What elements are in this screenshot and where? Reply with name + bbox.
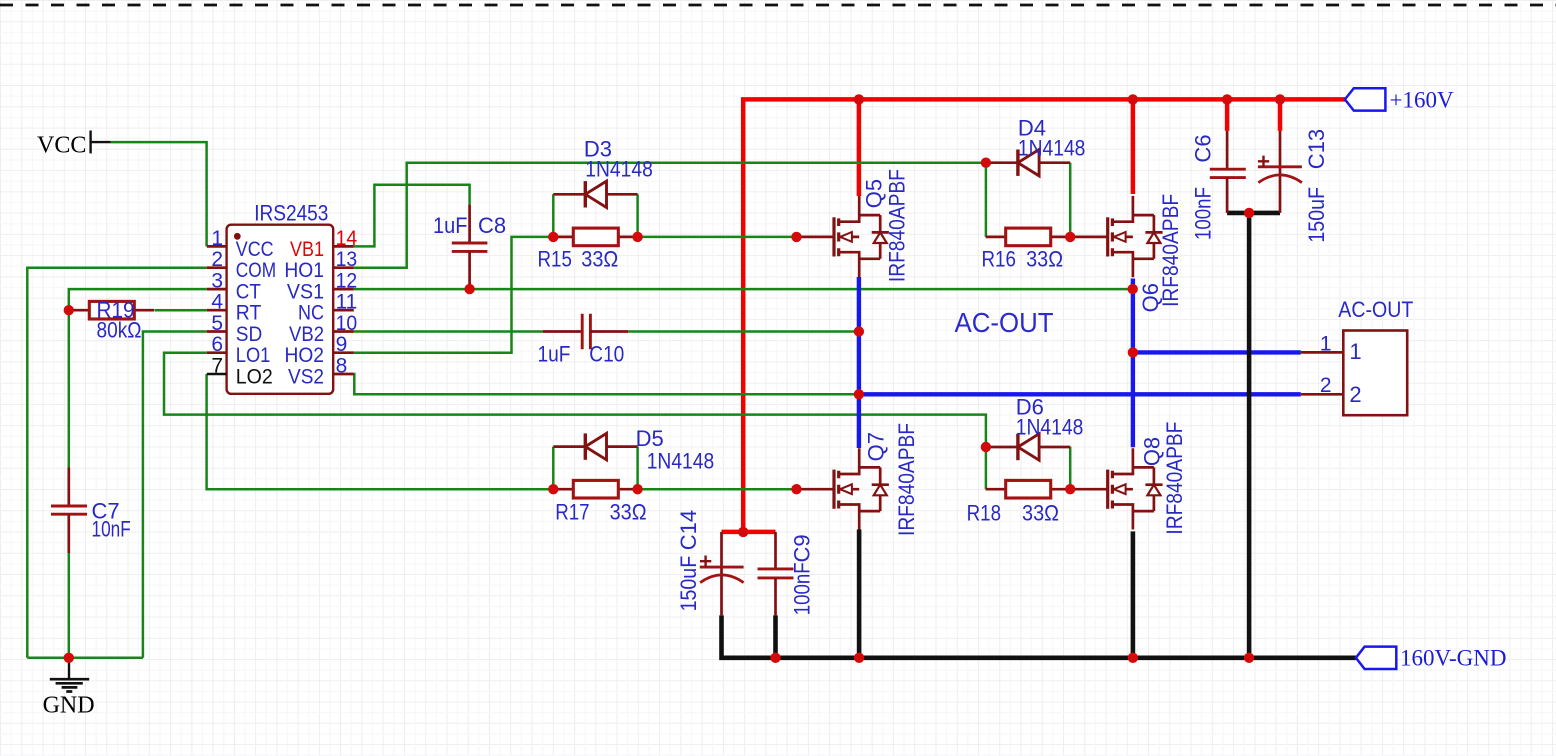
node junction line1 Q6 (1128, 347, 1138, 357)
pin 10 VB2 (289, 312, 357, 346)
wire RT pin4 to R19 (155, 309, 207, 312)
wire HO2 pin9 to R15 left (354, 237, 554, 353)
node junction C6/C13 black bar (1244, 208, 1254, 218)
node junction C8 bottom VS1 (464, 284, 474, 294)
node junction right vertical rail (1244, 653, 1254, 663)
svg-text:C13: C13 (1304, 129, 1329, 169)
svg-text:IRF840APBF: IRF840APBF (885, 169, 910, 282)
svg-text:8: 8 (336, 355, 348, 378)
connector J AC-OUT (1338, 297, 1413, 415)
svg-text:LO2: LO2 (236, 366, 273, 389)
svg-text:160V-GND: 160V-GND (1400, 646, 1507, 671)
capacitor C10 1uF (538, 314, 629, 367)
sheet top dashed border (0, 4, 1556, 7)
svg-text:C8: C8 (478, 213, 506, 238)
wire SD pin5 to GND rail (143, 332, 207, 658)
svg-text:2: 2 (211, 248, 223, 271)
wire +160V C14/C9 bar (722, 530, 776, 535)
svg-text:2: 2 (1349, 382, 1361, 407)
wire D6 right vertical (1069, 447, 1072, 490)
node junction Q8 source rail (1128, 653, 1138, 663)
svg-text:IRS2453: IRS2453 (254, 200, 328, 225)
wire LO2 pin7 to R17 left (207, 374, 554, 489)
wire HO1 pin13 to D4 left (354, 163, 986, 268)
node junction D6 left LO1 (981, 442, 991, 452)
svg-text:1uF: 1uF (538, 342, 571, 367)
svg-text:LO1: LO1 (236, 344, 270, 367)
wire D4 left vertical to R16 (985, 163, 988, 237)
svg-text:1N4148: 1N4148 (1016, 415, 1084, 440)
pin 2 connector (1301, 374, 1362, 407)
svg-text:80kΩ: 80kΩ (97, 317, 142, 342)
wire CT pin3 left (69, 289, 207, 467)
svg-text:3: 3 (211, 270, 223, 293)
node junction bus C13 (1275, 94, 1285, 104)
resistor R19 80k (69, 298, 154, 343)
svg-text:150uF: 150uF (676, 556, 701, 612)
pin 6 LO1 (207, 333, 270, 367)
svg-text:SD: SD (236, 323, 262, 346)
pin 5 SD (207, 312, 262, 346)
svg-text:AC-OUT: AC-OUT (1338, 297, 1413, 322)
svg-text:14: 14 (336, 227, 358, 250)
wire +160V to C6 (1225, 99, 1230, 130)
svg-text:VB2: VB2 (289, 323, 324, 346)
svg-text:1N4148: 1N4148 (647, 449, 715, 474)
svg-text:10: 10 (336, 312, 358, 335)
pin 9 HO2 (285, 333, 354, 367)
op-amp U1 IRS2453 body (227, 200, 334, 393)
node junction C9 rail (770, 653, 780, 663)
svg-text:150uF: 150uF (1304, 187, 1329, 243)
svg-text:NC: NC (298, 302, 324, 325)
wire R17 right to Q7 gate (638, 488, 797, 491)
svg-text:1: 1 (1349, 339, 1361, 364)
svg-text:CT: CT (236, 281, 261, 304)
svg-text:1: 1 (211, 227, 223, 250)
svg-text:100nF: 100nF (790, 562, 815, 615)
svg-text:33Ω: 33Ω (610, 500, 647, 525)
node junction R15 right (632, 232, 642, 242)
svg-text:R16: R16 (982, 246, 1016, 271)
wire +160V to Q5 drain (857, 99, 862, 196)
svg-text:1N4148: 1N4148 (585, 156, 653, 181)
svg-text:4: 4 (211, 291, 223, 314)
svg-text:Q5: Q5 (862, 179, 887, 208)
svg-text:+160V: +160V (1390, 88, 1454, 113)
node junction bus C14/C9 corner (738, 527, 748, 537)
svg-text:HO1: HO1 (284, 259, 324, 282)
svg-text:C10: C10 (589, 342, 624, 367)
wire LO1 pin6 to D6 junction (164, 353, 986, 447)
ground GND symbol (43, 658, 95, 719)
node VCC label (37, 131, 91, 159)
pin 14 VB1 (290, 227, 357, 261)
wire R15 right to Q5 gate (638, 236, 797, 239)
node junction bus C6 (1222, 94, 1232, 104)
svg-text:Q7: Q7 (864, 432, 889, 461)
svg-text:7: 7 (211, 355, 223, 378)
svg-text:10nF: 10nF (92, 517, 131, 542)
pin 8 VS2 (288, 355, 354, 389)
wire VS1 pin12 to Q6 source (354, 288, 1133, 291)
wire D5 right vertical (636, 447, 639, 490)
pin 11 NC (298, 291, 357, 325)
svg-text:12: 12 (336, 270, 358, 293)
svg-text:R18: R18 (967, 501, 1001, 526)
svg-text:C9: C9 (790, 534, 815, 562)
wire COM pin2 to GND rail (27, 268, 207, 658)
node junction R19 left (64, 305, 74, 315)
svg-text:RT: RT (236, 302, 262, 325)
svg-text:1: 1 (1320, 332, 1332, 355)
svg-text:Q8: Q8 (1139, 437, 1164, 466)
wire VCC label to pin 1 (91, 141, 111, 143)
wire ground rail to flag (722, 615, 1356, 657)
diode D6 1N4148 (986, 395, 1083, 461)
svg-text:COM: COM (236, 259, 276, 282)
svg-text:C14: C14 (676, 510, 701, 550)
svg-text:VCC: VCC (37, 133, 86, 159)
node junction bus Q5 drain (854, 94, 864, 104)
node junction R17 left (548, 484, 558, 494)
svg-text:11: 11 (336, 291, 358, 314)
svg-text:100nF: 100nF (1190, 187, 1215, 240)
wire VB1 pin14 to C8 top (354, 185, 470, 247)
wire Q8 source to rail (1131, 531, 1136, 657)
node junction VB2 Q5 source (854, 326, 864, 336)
svg-text:IRF840APBF: IRF840APBF (1162, 422, 1187, 535)
wire AC-OUT line 1 (1133, 350, 1301, 354)
transistor Q7 IRF840APBF (797, 423, 920, 536)
svg-text:1N4148: 1N4148 (1018, 135, 1086, 160)
svg-text:IRF840APBF: IRF840APBF (894, 423, 919, 536)
wire Q7 source to rail (857, 530, 862, 658)
svg-text:IRF840APBF: IRF840APBF (1158, 194, 1183, 307)
wire +160V to C13 (1278, 99, 1283, 130)
wire D3 right vertical (636, 194, 639, 237)
resistor R15 33R (538, 228, 639, 271)
node junction Q7 gate (791, 484, 801, 494)
wire +160V horizontal bus (743, 99, 1345, 532)
wire AC-OUT line 2 (859, 392, 1301, 396)
resistor R16 33R (982, 228, 1071, 271)
pin 1 VCC (207, 227, 274, 261)
wire VB2 pin10 to C10 (354, 330, 543, 333)
pin 13 HO1 (284, 248, 357, 282)
wire C6/C13 to rail vertical (1247, 213, 1252, 658)
svg-text:VCC: VCC (236, 238, 274, 261)
svg-text:9: 9 (336, 333, 348, 356)
node junction VS1 Q6 source (1128, 284, 1138, 294)
pin 1 connector (1301, 332, 1362, 364)
svg-text:6: 6 (211, 333, 223, 356)
wire D5 left vertical (552, 447, 555, 490)
resistor R17 33R (553, 480, 646, 524)
transistor Q5 IRF840APBF (797, 169, 910, 282)
node junction R18 right (1065, 484, 1075, 494)
svg-text:13: 13 (336, 248, 358, 271)
wire VS2 pin8 to AC line 2 (354, 374, 859, 394)
wire Q5 source to Q7 drain (857, 277, 861, 448)
capacitor C8 1uF (433, 205, 506, 290)
node junction Q5 gate (791, 232, 801, 242)
wire C6/C13 bottom bar (1227, 211, 1280, 216)
pin 7 LO2 (207, 355, 273, 389)
svg-text:1uF: 1uF (433, 213, 468, 238)
svg-text:C6: C6 (1190, 134, 1215, 162)
flag +160V (1345, 88, 1454, 113)
pin 12 VS1 (287, 270, 357, 304)
node junction GND rail (64, 653, 74, 663)
node junction R15 left (548, 232, 558, 242)
svg-text:AC-OUT: AC-OUT (955, 307, 1054, 338)
svg-text:GND: GND (43, 693, 95, 719)
wire GND rail (27, 657, 143, 660)
node junction VS2 line2 (854, 389, 864, 399)
pin 4 RT (207, 291, 262, 325)
svg-text:HO2: HO2 (285, 344, 325, 367)
transistor Q6 IRF840APBF (1070, 194, 1183, 312)
node junction R17 right (632, 484, 642, 494)
svg-text:33Ω: 33Ω (1022, 501, 1059, 526)
wire CT below C7 to GND rail (68, 553, 71, 658)
diode D4 1N4148 (986, 116, 1086, 176)
capacitor C7 10nF (51, 468, 131, 554)
svg-text:2: 2 (1320, 374, 1332, 397)
wire Q6 source to Q8 drain (1131, 279, 1135, 448)
svg-text:5: 5 (211, 312, 223, 335)
wire D4 right vertical (1069, 163, 1072, 237)
diode D3 1N4148 (553, 136, 653, 207)
node junction R16 right (1065, 232, 1075, 242)
diode D5 1N4148 (553, 426, 714, 474)
svg-text:R17: R17 (555, 500, 589, 525)
capacitor C14 150uF polarized (676, 510, 743, 615)
flag 160V-GND (1356, 646, 1507, 671)
svg-text:33Ω: 33Ω (581, 246, 618, 271)
node junction D4 left HO1 (981, 158, 991, 168)
svg-text:33Ω: 33Ω (1026, 246, 1063, 271)
pin 3 CT (207, 270, 261, 304)
node junction Q7 source rail (854, 653, 864, 663)
wire D3 left vertical (552, 194, 555, 237)
wire +160V to Q6 drain (1131, 99, 1136, 194)
capacitor C6 100nF (1190, 131, 1245, 240)
wire D6 left vertical to R18 (985, 447, 988, 489)
capacitor C9 100nF (758, 532, 815, 616)
transistor Q8 IRF840APBF (1070, 422, 1187, 535)
node junction bus Q6 drain (1128, 94, 1138, 104)
svg-text:VS2: VS2 (288, 366, 324, 389)
svg-text:VB1: VB1 (290, 238, 324, 261)
svg-text:D5: D5 (636, 426, 664, 451)
wire C10 to Q5 source net (628, 330, 859, 333)
svg-text:R15: R15 (538, 246, 572, 271)
pin 2 COM (207, 248, 276, 282)
capacitor C13 150uF polarized (1258, 129, 1329, 243)
wire C9 bottom to rail (773, 615, 778, 657)
resistor R18 33R (967, 480, 1071, 525)
svg-text:VS1: VS1 (287, 281, 324, 304)
